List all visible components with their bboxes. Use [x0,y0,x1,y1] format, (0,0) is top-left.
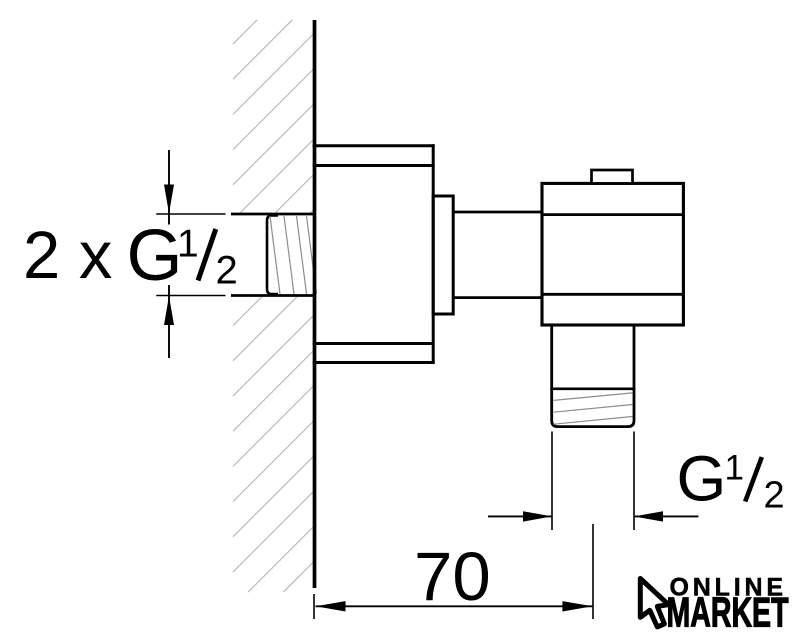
outlet thread lines [554,393,633,424]
left dimension extension tick bottom [156,295,225,297]
body inner bottom line [313,342,434,345]
svg-text:70: 70 [414,538,491,615]
body top edge [313,144,435,147]
valve body [542,183,683,325]
left dimension line lower [168,285,170,358]
G half dim line left segment [488,515,552,517]
body right edge [432,144,435,364]
left dimension extension tick top [156,213,225,215]
text slash left [198,229,216,281]
left dimension arrow up [164,296,174,325]
wall line [313,20,317,588]
70 dim line [316,605,593,607]
svg-text:1: 1 [725,449,744,488]
wall hatching [233,20,316,592]
text slash right [745,457,762,502]
svg-text:2: 2 [764,475,785,517]
inlet stub thread start [267,215,278,294]
outlet pipe outline [552,325,634,427]
outlet extension line right [633,432,635,531]
G half dim arrow left [634,511,663,521]
connecting pipe bottom [453,296,542,299]
inlet stub top edge [231,213,316,216]
inlet stub thread lines [270,216,317,294]
valve body upper inner line [541,213,684,216]
G half dim arrow right [523,511,552,521]
svg-text:G: G [127,216,183,296]
connecting pipe top [453,211,542,214]
body inner top line [313,164,435,167]
70 dim arrow right [562,601,592,611]
outlet thread start line [550,387,635,390]
svg-text:1: 1 [177,223,199,266]
svg-text:MARKET: MARKET [667,589,789,636]
body bottom edge [313,361,435,364]
logo cursor [640,579,668,627]
left dimension arrow down [164,185,174,214]
G half dim line right segment [634,515,699,517]
svg-text:2: 2 [216,249,238,293]
left dimension line upper [168,150,170,225]
flange [433,196,453,314]
inlet stub bottom edge [231,294,316,297]
outlet extension line left [551,432,553,531]
70 dim arrow left [316,601,346,611]
wall extension tick bottom [313,594,315,619]
valve body lower inner line [541,293,684,296]
knob on top [592,170,633,183]
svg-text:G: G [677,443,727,515]
centerline of outlet [592,524,594,619]
svg-text:2 x: 2 x [23,218,112,293]
